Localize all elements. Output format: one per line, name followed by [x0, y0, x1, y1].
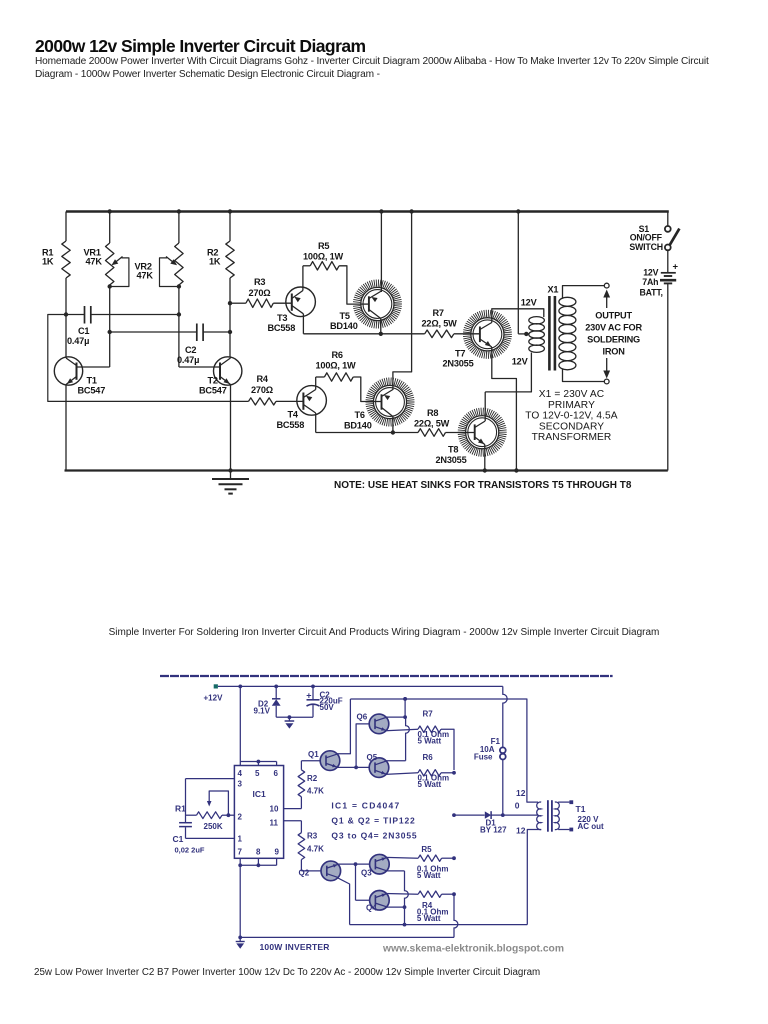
svg-text:22Ω, 5W: 22Ω, 5W: [422, 319, 458, 329]
svg-text:5 Watt: 5 Watt: [418, 780, 442, 789]
transistor Q2 TIP122: [301, 870, 327, 872]
wire Q4 collector: [386, 906, 405, 908]
svg-text:100Ω, 1W: 100Ω, 1W: [316, 361, 357, 371]
svg-text:1: 1: [238, 835, 243, 844]
transformer X1 primary winding: [529, 317, 545, 324]
wire secondary top lead: [563, 286, 605, 299]
svg-text:NOTE: USE HEAT SINKS FOR TRANS: NOTE: USE HEAT SINKS FOR TRANSISTORS T5 …: [334, 480, 632, 491]
svg-text:270Ω: 270Ω: [251, 385, 273, 395]
svg-text:C1: C1: [173, 834, 184, 844]
caption middle: [109, 627, 660, 638]
svg-text:T6: T6: [355, 410, 365, 420]
wire Q2 collector down: [337, 878, 349, 925]
wire primary bottom lead: [527, 830, 541, 925]
wire secondary bottom lead: [563, 369, 605, 382]
svg-text:5 Watt: 5 Watt: [417, 871, 441, 880]
svg-text:47K: 47K: [137, 271, 154, 281]
wire T5/T3 output line to transformer center area: [517, 212, 519, 334]
svg-text:R3: R3: [254, 277, 265, 287]
svg-text:5: 5: [255, 769, 260, 778]
transistor T1 BC547: [54, 357, 82, 385]
svg-text:11: 11: [270, 819, 279, 828]
wire pin11 to R3: [284, 820, 302, 822]
wire IC supply drop: [238, 685, 242, 689]
resistor R7 22ohm: [425, 330, 454, 338]
wire VR1 branch down to C2 and T1 base: [109, 287, 111, 368]
svg-text:R5: R5: [421, 845, 432, 854]
svg-text:+: +: [672, 262, 678, 273]
svg-text:0.47µ: 0.47µ: [177, 355, 199, 365]
capacitor C1 0.022uF: [179, 822, 192, 824]
wire Q4 emitter to R4: [386, 893, 418, 896]
resistor R5 0.1 Ohm: [418, 855, 441, 861]
zener D2 9.1V: [274, 685, 278, 689]
svg-text:R4: R4: [257, 374, 269, 384]
transformer X1 secondary winding: [559, 297, 576, 306]
svg-text:T8: T8: [448, 445, 458, 455]
capacitor C2: [110, 331, 197, 333]
svg-text:BC547: BC547: [199, 386, 227, 396]
svg-text:Q2: Q2: [299, 869, 310, 878]
wire bottom ground rail: [65, 469, 668, 471]
svg-text:230V AC FOR: 230V AC FOR: [585, 323, 642, 333]
svg-text:12: 12: [516, 826, 526, 836]
svg-text:1K: 1K: [42, 257, 54, 267]
resistor R7 0.1 Ohm: [418, 726, 441, 732]
wire Q3 emitter to R5: [386, 856, 418, 859]
svg-text:IRON: IRON: [603, 347, 626, 357]
svg-text:IC1 = CD4047: IC1 = CD4047: [331, 801, 400, 811]
wire Q3 collector with hop: [386, 870, 405, 872]
Q5: [369, 758, 389, 778]
svg-text:47K: 47K: [86, 257, 103, 267]
wire cross-coupling node A to R4: [48, 315, 249, 402]
subtitle line 1: [35, 56, 709, 67]
wire Q6 base branch: [356, 724, 375, 768]
svg-text:3: 3: [238, 780, 243, 789]
Q3: [370, 854, 390, 874]
transformer T1 secondary winding: [555, 802, 559, 830]
wire pin3 to C1 top: [186, 778, 235, 780]
svg-text:2N3055: 2N3055: [443, 359, 474, 369]
svg-text:250K: 250K: [204, 822, 223, 831]
svg-text:0,02 2uF: 0,02 2uF: [175, 846, 205, 855]
svg-text:+12V: +12V: [204, 694, 224, 703]
wire center tap 0: [503, 814, 538, 816]
svg-text:R7: R7: [433, 308, 444, 318]
svg-text:8: 8: [256, 848, 261, 857]
wire IC top pins 4 5 6 tie: [240, 761, 276, 763]
Q4: [370, 891, 390, 911]
svg-text:C2: C2: [185, 345, 196, 355]
resistor R6 0.1 Ohm: [418, 770, 441, 776]
resistor R4 0.1 Ohm: [418, 891, 441, 897]
wire Q2 emitter to Q3/Q4 bases: [337, 863, 375, 865]
svg-text:5 Watt: 5 Watt: [417, 914, 441, 923]
title: [35, 36, 366, 57]
transistor T6 BD140 with heat sink: [409, 209, 413, 213]
svg-text:Q3: Q3: [361, 869, 372, 878]
svg-text:2N3055: 2N3055: [436, 455, 467, 465]
wire Q1 collector to 12V-top bus: [337, 699, 351, 754]
svg-text:T1: T1: [87, 376, 97, 386]
resistor R6: [316, 376, 325, 378]
wire secondary leads and terminals: [558, 801, 569, 803]
svg-text:T1: T1: [576, 804, 586, 814]
svg-text:BD140: BD140: [344, 421, 372, 431]
resistor R5: [303, 265, 310, 267]
svg-text:R1: R1: [175, 804, 186, 814]
resistor R3: [228, 301, 232, 305]
svg-text:4.7K: 4.7K: [307, 787, 324, 796]
svg-text:IC1: IC1: [253, 789, 267, 799]
wire Q5 collector with hop: [386, 760, 406, 762]
svg-text:4.7K: 4.7K: [307, 845, 324, 854]
svg-text:SECONDARY: SECONDARY: [539, 421, 604, 432]
wire Q6 emitter to R7: [386, 729, 419, 731]
svg-text:X1 = 230V AC: X1 = 230V AC: [539, 389, 604, 400]
resistor R2: [228, 209, 232, 213]
+12V terminal square: [214, 684, 218, 688]
svg-text:12V: 12V: [512, 357, 529, 367]
svg-text:0.47µ: 0.47µ: [67, 336, 89, 346]
svg-text:SWITCH: SWITCH: [629, 242, 663, 252]
Q6: [369, 714, 389, 734]
fuse F1 10A: [503, 686, 507, 747]
transistor T5 BD140 with heat sink: [380, 212, 382, 293]
svg-text:X1: X1: [548, 285, 559, 295]
svg-text:7: 7: [238, 848, 243, 857]
wire emitter-resistor bus to ground with hop: [454, 894, 458, 937]
wire IC bottom pins 7 8 9 tie: [239, 858, 241, 865]
ground symbol lower: [239, 937, 241, 941]
svg-text:BD140: BD140: [330, 321, 358, 331]
Q2: [321, 861, 341, 881]
transistor T3 BC558: [286, 287, 316, 317]
diode D1 BY127: [454, 814, 485, 816]
svg-text:OUTPUT: OUTPUT: [595, 311, 632, 321]
svg-text:Q4: Q4: [366, 904, 377, 913]
potentiometer R1 250K: [186, 814, 197, 816]
svg-text:R5: R5: [318, 241, 329, 251]
wire VR2 branch down to C1 and T2 base: [178, 287, 180, 368]
transistor T8 2N3055 with heat sink: [458, 408, 507, 457]
ground symbol D2/C2: [288, 715, 292, 719]
svg-text:+: +: [306, 690, 311, 700]
svg-text:12: 12: [516, 788, 526, 798]
svg-text:www.skema-elektronik.blogspot.: www.skema-elektronik.blogspot.com: [382, 944, 564, 955]
IC1 CD4047 box: [234, 766, 283, 859]
transistor Q1 TIP122: [301, 760, 326, 762]
svg-text:SOLDERING: SOLDERING: [587, 335, 640, 345]
svg-text:5 Watt: 5 Watt: [418, 737, 442, 746]
transistor T7 2N3055 with heat sink: [463, 310, 512, 359]
wire Q6 collector: [386, 716, 406, 718]
resistor R4: [249, 398, 277, 405]
wire pin10 to R2: [284, 808, 302, 810]
svg-text:TO 12V-0-12V, 4.5A: TO 12V-0-12V, 4.5A: [525, 411, 618, 422]
ground symbol: [228, 468, 232, 472]
resistor R1: [65, 212, 67, 242]
transformer T1 primary winding: [537, 802, 541, 830]
transformer T1 core: [547, 800, 549, 832]
svg-text:Q5: Q5: [367, 753, 378, 762]
svg-text:R3: R3: [307, 832, 318, 841]
svg-text:BC547: BC547: [78, 386, 106, 396]
svg-text:R6: R6: [423, 753, 434, 762]
wire Q5 emitter to R6: [386, 773, 419, 775]
svg-text:10: 10: [270, 805, 279, 814]
svg-text:R7: R7: [423, 710, 434, 719]
svg-text:270Ω: 270Ω: [249, 288, 271, 298]
output terminal bottom: [604, 379, 609, 384]
battery 12V 7Ah: [667, 250, 669, 272]
svg-text:BC558: BC558: [277, 420, 305, 430]
svg-text:100W INVERTER: 100W INVERTER: [260, 942, 330, 952]
svg-text:9.1V: 9.1V: [254, 707, 271, 716]
wire 12V-top bus to transformer: [350, 699, 538, 802]
capacitor C2 220uF: [311, 685, 315, 689]
svg-text:Q1: Q1: [308, 750, 319, 759]
capacitor C1: [66, 314, 85, 316]
horizontal dashed rule: [160, 675, 613, 677]
svg-text:T2: T2: [208, 376, 218, 386]
wire collectors bus to transformer bottom: [350, 924, 528, 926]
svg-text:12V: 12V: [521, 298, 538, 308]
svg-text:AC out: AC out: [578, 822, 605, 831]
transformer X1 core: [548, 296, 551, 371]
wire ground rail: [240, 936, 454, 938]
svg-text:R8: R8: [427, 408, 438, 418]
svg-text:100Ω, 1W: 100Ω, 1W: [303, 252, 344, 262]
wire primary bottom lead: [485, 353, 531, 392]
svg-text:6: 6: [274, 769, 279, 778]
svg-text:2: 2: [238, 813, 243, 822]
svg-text:T4: T4: [288, 410, 299, 420]
svg-text:TRANSFORMER: TRANSFORMER: [532, 432, 612, 443]
resistor R8 22ohm: [418, 429, 446, 437]
wire pin1 to C1 bottom: [186, 837, 235, 839]
svg-text:BATT,: BATT,: [640, 288, 663, 298]
svg-text:7Ah: 7Ah: [642, 277, 658, 287]
wire Q3/Q4 base tie: [355, 864, 357, 900]
svg-text:Fuse: Fuse: [474, 753, 493, 762]
svg-text:Q6: Q6: [357, 713, 368, 722]
transistor T4 BC558: [297, 386, 327, 416]
svg-text:PRIMARY: PRIMARY: [548, 400, 595, 411]
Q1: [320, 751, 340, 771]
svg-text:T7: T7: [455, 349, 465, 359]
wire IC ground drop: [239, 865, 241, 937]
svg-text:4: 4: [238, 769, 243, 778]
output terminal top: [604, 283, 609, 288]
svg-text:R6: R6: [332, 350, 343, 360]
svg-text:BC558: BC558: [268, 323, 296, 333]
svg-text:C1: C1: [78, 326, 89, 336]
wire Q1 emitter to Q5/Q6 bases: [337, 766, 376, 768]
svg-text:22Ω, 5W: 22Ω, 5W: [414, 419, 450, 429]
node A junction R1/C1: [64, 312, 68, 316]
transistor T2 BC547: [214, 357, 242, 385]
wire +12V rail: [218, 685, 503, 687]
resistor R3 4.7K: [300, 821, 302, 833]
switch S1: [667, 212, 669, 226]
svg-text:0: 0: [515, 801, 520, 811]
svg-text:T3: T3: [277, 313, 287, 323]
svg-text:BY 127: BY 127: [480, 826, 507, 835]
svg-text:R2: R2: [307, 774, 318, 783]
svg-text:Q1 & Q2 = TIP122: Q1 & Q2 = TIP122: [331, 816, 415, 826]
svg-text:50V: 50V: [320, 703, 335, 712]
svg-text:1K: 1K: [209, 257, 221, 267]
caption bottom: [34, 967, 540, 978]
svg-text:T5: T5: [340, 311, 350, 321]
resistor R2 4.7K: [300, 797, 302, 809]
potentiometer VR2: [177, 209, 181, 213]
wire top +12V rail: [66, 210, 669, 213]
potentiometer VR1: [108, 209, 112, 213]
svg-text:9: 9: [275, 848, 280, 857]
svg-text:Q3 to Q4= 2N3055: Q3 to Q4= 2N3055: [331, 831, 417, 841]
subtitle line 2: [35, 69, 380, 80]
